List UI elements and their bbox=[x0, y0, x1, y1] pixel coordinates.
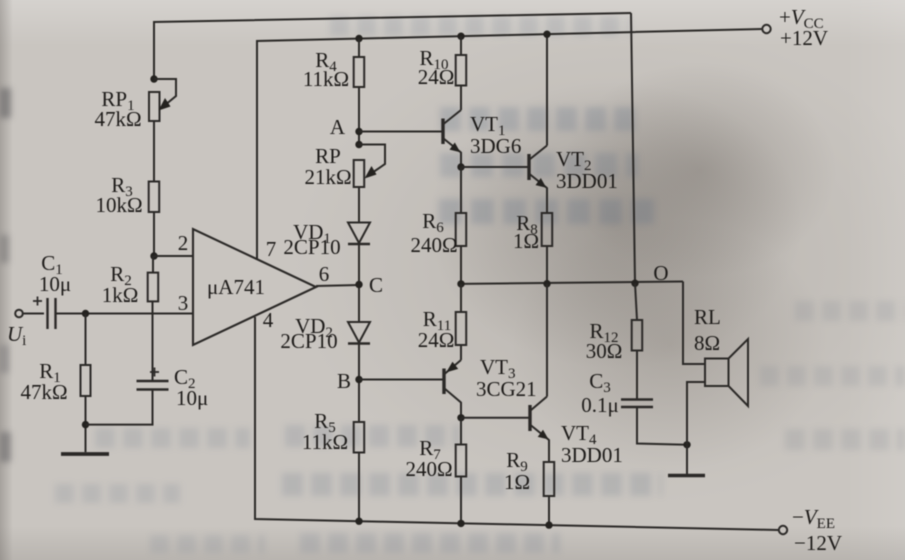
label RL 8ohm bbox=[694, 305, 721, 355]
potentiometer RP bbox=[354, 145, 385, 188]
resistor R12 bbox=[632, 320, 643, 351]
wire R6 to output line bbox=[460, 246, 462, 284]
label uA741 bbox=[207, 275, 265, 299]
terminal +Vcc bbox=[762, 25, 770, 33]
diode VD2 bbox=[348, 322, 370, 344]
svg-text:3DG6: 3DG6 bbox=[470, 134, 521, 158]
resistor R10 bbox=[456, 55, 467, 86]
wire R3 to pin2 node bbox=[153, 212, 155, 256]
svg-text:2: 2 bbox=[178, 231, 189, 255]
resistor R6 bbox=[456, 213, 467, 246]
node junction R1/C2 return bbox=[82, 421, 89, 428]
node junction R9 on -Vee rail bbox=[545, 521, 552, 528]
node A bbox=[355, 128, 362, 135]
resistor R11 bbox=[456, 312, 467, 345]
wire R11 to VT3 emitter bbox=[460, 345, 462, 360]
label R6 240 bbox=[410, 209, 457, 257]
label -Vee -12V bbox=[792, 505, 842, 555]
svg-text:47kΩ: 47kΩ bbox=[94, 107, 141, 131]
label VD1 2CP10 bbox=[283, 220, 340, 259]
wire +Vcc supply rail bbox=[257, 29, 762, 259]
wire return node to ground bbox=[686, 445, 688, 474]
speaker RL bbox=[705, 339, 748, 406]
node junction VT3 collector / VT4 base / R7 bbox=[457, 414, 464, 421]
label C1 10u bbox=[39, 251, 71, 296]
wire output line corner down to speaker bbox=[683, 282, 705, 365]
label R2 1k bbox=[102, 262, 139, 307]
svg-text:10kΩ: 10kΩ bbox=[95, 193, 142, 217]
label R1 47k bbox=[20, 359, 67, 404]
svg-text:24Ω: 24Ω bbox=[418, 65, 455, 89]
label B bbox=[337, 369, 351, 393]
svg-text:7: 7 bbox=[266, 237, 277, 261]
wire rail to R4 bbox=[358, 39, 360, 58]
pin number 2 bbox=[178, 231, 189, 255]
label VD2 2CP10 bbox=[280, 314, 337, 353]
node junction R10 top on +Vcc rail bbox=[457, 33, 464, 40]
label VT3 3CG21 bbox=[476, 355, 537, 401]
svg-text:11kΩ: 11kΩ bbox=[303, 67, 349, 91]
wire C3 bottom to speaker return node bbox=[637, 407, 687, 445]
label RP 21k bbox=[304, 144, 351, 189]
wire RP1 to R3 bbox=[153, 121, 155, 182]
resistor R8 bbox=[542, 213, 553, 246]
svg-text:240Ω: 240Ω bbox=[405, 457, 452, 481]
label R4 11k bbox=[303, 48, 349, 91]
svg-text:1kΩ: 1kΩ bbox=[102, 283, 139, 307]
svg-text:11kΩ: 11kΩ bbox=[302, 430, 348, 454]
svg-text:Ui: Ui bbox=[7, 322, 26, 349]
resistor R5 bbox=[354, 422, 365, 453]
node junction R5 on -Vee rail bbox=[355, 518, 362, 525]
wire VT3 collector to VT4 base bbox=[461, 417, 530, 419]
svg-text:8Ω: 8Ω bbox=[694, 331, 720, 355]
transistor Q VT2 bbox=[529, 146, 547, 214]
label O bbox=[653, 261, 668, 285]
node junction feedback/RP1 wiper bbox=[150, 75, 157, 82]
svg-text:3DD01: 3DD01 bbox=[561, 443, 623, 467]
svg-text:μA741: μA741 bbox=[207, 275, 265, 299]
wire R10 to VT1 collector bbox=[460, 86, 462, 111]
resistor R7 bbox=[456, 445, 467, 477]
wire node O down to R12 bbox=[635, 283, 637, 320]
wire VT1 emitter to VT2 base bbox=[461, 166, 529, 168]
wire down to R1 bbox=[85, 314, 87, 366]
wire output line to R11 bbox=[460, 284, 462, 312]
svg-text:6: 6 bbox=[319, 262, 330, 286]
wire node B to VT3 base bbox=[359, 379, 444, 381]
capacitor C3 bbox=[621, 400, 653, 408]
transistor Q VT3 bbox=[444, 360, 461, 418]
label R3 10k bbox=[95, 173, 142, 217]
svg-text:R6: R6 bbox=[422, 209, 444, 236]
wire RP to VD1 bbox=[358, 187, 360, 222]
node junction R8/VT4 collector on output line bbox=[543, 280, 550, 287]
svg-text:O: O bbox=[653, 261, 668, 285]
node junction VT2 collector on rail bbox=[543, 31, 550, 38]
svg-text:0.1μ: 0.1μ bbox=[581, 393, 619, 417]
svg-text:B: B bbox=[337, 369, 351, 393]
potentiometer RP1 bbox=[149, 79, 176, 121]
wire R2 to C2 (crosses pin3 wire, no dot) bbox=[152, 301, 154, 381]
svg-text:24Ω: 24Ω bbox=[418, 328, 455, 352]
node junction pin2/R2 bbox=[150, 252, 157, 259]
wire node to R7 bbox=[460, 418, 462, 445]
pin number 6 bbox=[319, 262, 330, 286]
svg-text:21kΩ: 21kΩ bbox=[304, 165, 351, 189]
node junction RP wiper bbox=[355, 141, 362, 148]
svg-text:2CP10: 2CP10 bbox=[283, 235, 340, 259]
capacitor C1 bbox=[33, 297, 56, 330]
node junction R6/R11 on output line bbox=[457, 280, 464, 287]
label C bbox=[369, 273, 383, 297]
label R12 30 bbox=[586, 319, 623, 363]
svg-text:+12V: +12V bbox=[780, 26, 828, 50]
svg-text:3DD01: 3DD01 bbox=[556, 169, 618, 193]
transistor Q VT1 bbox=[443, 110, 461, 167]
label C3 0.1u bbox=[581, 369, 619, 417]
svg-text:−VEE: −VEE bbox=[792, 505, 835, 532]
pin number 3 bbox=[178, 291, 189, 315]
label R8 1 bbox=[513, 211, 539, 253]
wire pin2 node down to R2 bbox=[152, 256, 154, 273]
wire R9 to -Vee rail bbox=[548, 496, 550, 525]
resistor R3 bbox=[149, 182, 160, 213]
wire speaker bottom to return node bbox=[687, 382, 705, 445]
svg-text:3: 3 bbox=[178, 291, 189, 315]
label VT4 3DD01 bbox=[561, 421, 623, 467]
node B bbox=[355, 376, 362, 383]
svg-text:C3: C3 bbox=[589, 369, 611, 396]
wire C2 bottom to R1/ground node bbox=[86, 390, 153, 425]
wire VT2 collector to +Vcc rail bbox=[546, 34, 548, 145]
label R9 1 bbox=[504, 448, 530, 494]
wire node A to VT1 base bbox=[359, 131, 443, 133]
node junction C1/R1 bbox=[82, 310, 89, 317]
wire op-amp output to node C bbox=[316, 285, 359, 286]
wire node to R6 bbox=[460, 167, 462, 213]
node junction R7 on -Vee rail bbox=[457, 520, 464, 527]
svg-text:1Ω: 1Ω bbox=[513, 229, 539, 253]
label C2 10u bbox=[174, 365, 208, 410]
wire VT4 collector to output line bbox=[546, 284, 548, 397]
svg-text:3CG21: 3CG21 bbox=[476, 377, 537, 401]
node junction C3 / speaker return bbox=[683, 441, 690, 448]
svg-text:10μ: 10μ bbox=[39, 272, 71, 296]
resistor R9 bbox=[544, 462, 555, 496]
node junction VT1 emitter / VT2 base / R6 bbox=[457, 163, 464, 170]
svg-text:A: A bbox=[330, 115, 346, 139]
label R11 24 bbox=[418, 307, 455, 352]
label R7 240 bbox=[405, 436, 452, 481]
wire R4 to node A bbox=[358, 87, 360, 144]
node C bbox=[355, 281, 362, 288]
wire R8 to output line bbox=[546, 246, 548, 284]
pin number 7 bbox=[266, 237, 277, 261]
label RP1 47k bbox=[94, 87, 141, 131]
diode VD1 bbox=[348, 223, 370, 245]
ground left bbox=[61, 452, 109, 456]
resistor R2 bbox=[148, 273, 159, 302]
svg-text:2CP10: 2CP10 bbox=[280, 329, 337, 353]
transistor Q VT4 bbox=[530, 397, 549, 463]
wire to op-amp pin 2 bbox=[154, 255, 193, 257]
svg-text:10μ: 10μ bbox=[176, 386, 208, 410]
terminal -Vee bbox=[779, 526, 787, 534]
resistor R1 bbox=[81, 365, 91, 396]
wire feedback column down to node O (crosses +Vcc rail, no dot) bbox=[631, 13, 635, 283]
label VT2 3DD01 bbox=[556, 147, 618, 193]
svg-text:240Ω: 240Ω bbox=[410, 233, 457, 257]
pin number 4 bbox=[263, 308, 274, 332]
resistor R4 bbox=[354, 57, 365, 87]
wire R1 bottom to ground bbox=[85, 396, 87, 452]
wire R12 to C3 bbox=[636, 351, 638, 400]
label R5 11k bbox=[302, 409, 348, 454]
capacitor C2 bbox=[137, 368, 169, 390]
label Ui bbox=[7, 322, 26, 349]
wire R7 to -Vee rail bbox=[460, 477, 462, 524]
node O bbox=[631, 280, 638, 287]
node junction R4 top on +Vcc rail bbox=[355, 35, 362, 42]
svg-text:30Ω: 30Ω bbox=[586, 339, 623, 363]
label A bbox=[330, 115, 346, 139]
op-amp U uA741 bbox=[193, 229, 316, 345]
svg-text:C: C bbox=[369, 273, 383, 297]
wire VD2 to node B bbox=[358, 344, 360, 423]
ground right bbox=[668, 474, 705, 477]
svg-text:4: 4 bbox=[263, 308, 274, 332]
terminal input Ui bbox=[15, 310, 44, 318]
wire top feedback rail from node O column to RP1 column bbox=[154, 13, 631, 79]
svg-text:1Ω: 1Ω bbox=[504, 470, 530, 494]
label +Vcc +12V bbox=[779, 5, 828, 50]
svg-text:47kΩ: 47kΩ bbox=[20, 380, 67, 404]
svg-text:RL: RL bbox=[694, 305, 721, 329]
wire rail to R10 bbox=[460, 36, 462, 55]
wire input row to op-amp pin 3 bbox=[56, 313, 194, 315]
wire R5 to -Vee rail bbox=[358, 453, 360, 522]
wire output line O bbox=[461, 282, 683, 284]
wire -Vee supply rail bbox=[255, 317, 778, 530]
bleed-through background text blobs bbox=[330, 16, 630, 36]
label R10 24 bbox=[418, 46, 455, 89]
wire VD1 to node C bbox=[358, 244, 360, 322]
svg-text:−12V: −12V bbox=[794, 531, 842, 555]
label VT1 3DG6 bbox=[470, 112, 521, 158]
